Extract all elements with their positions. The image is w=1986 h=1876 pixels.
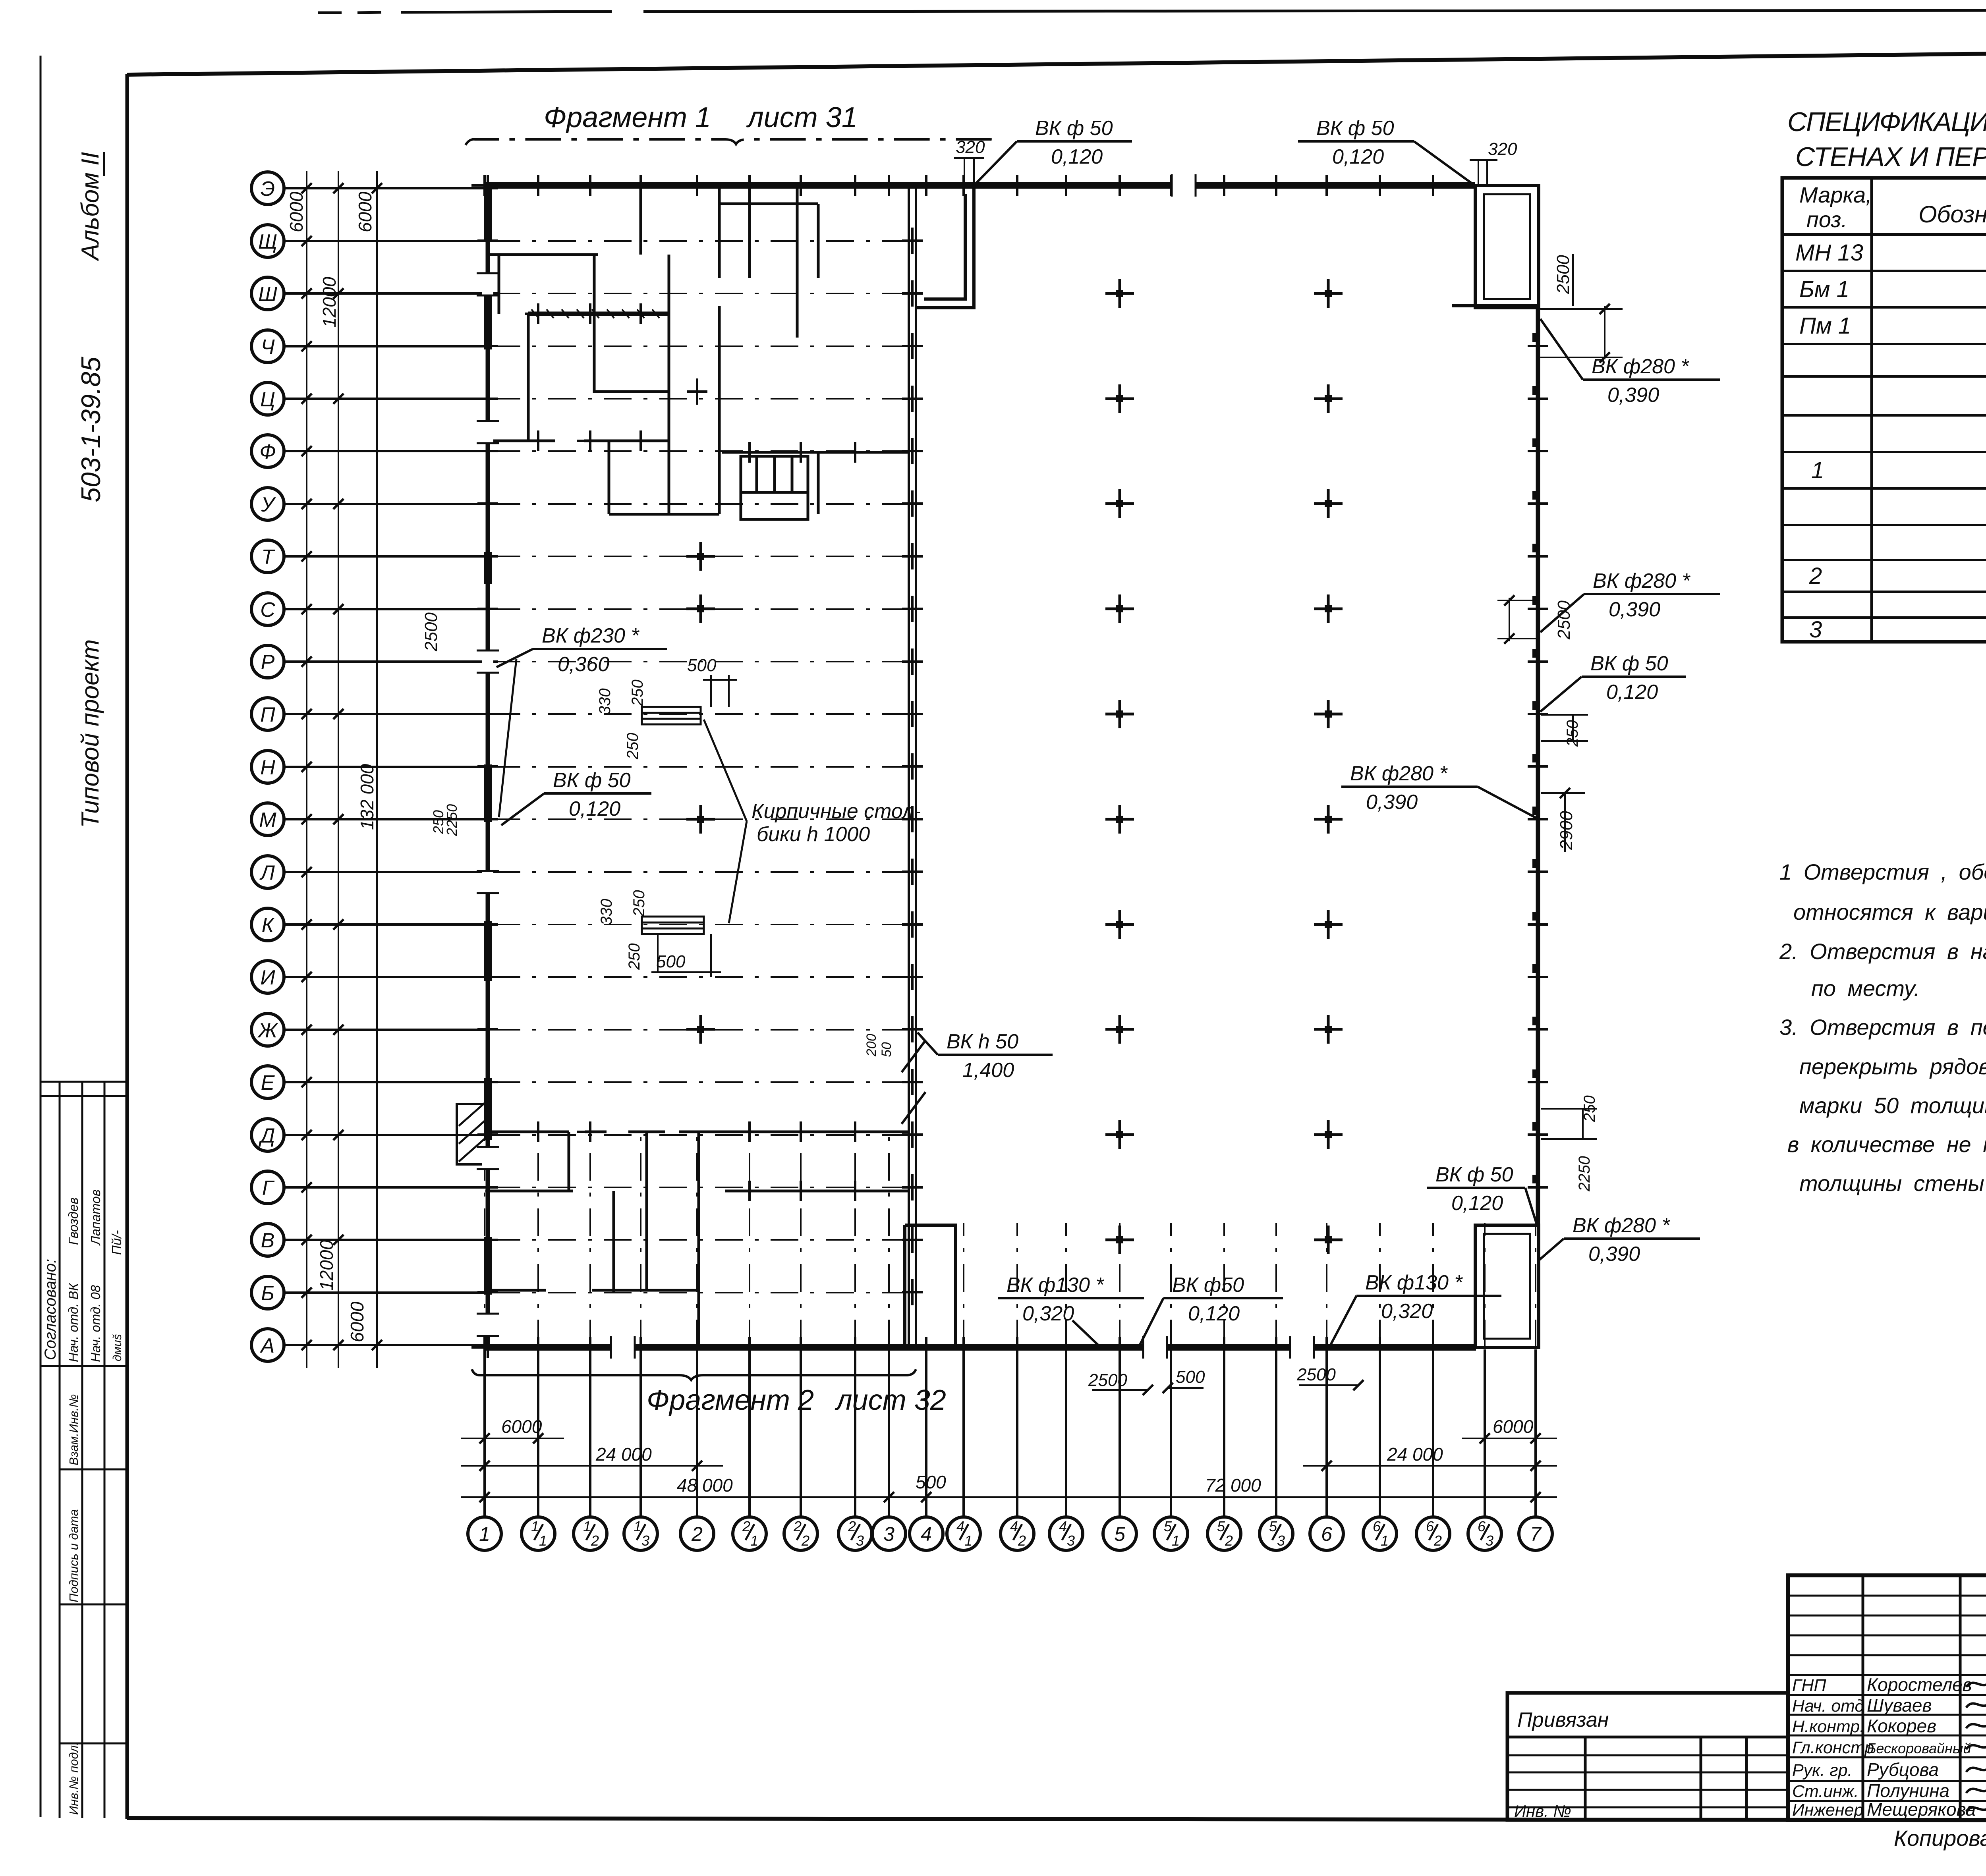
svg-text:330: 330	[596, 688, 614, 715]
extra top-left partition stubs	[499, 185, 818, 514]
central double wall	[908, 185, 910, 1347]
svg-text:Марка,: Марка,	[1799, 182, 1872, 207]
svg-text:Копировал:: Копировал:	[1894, 1826, 1986, 1851]
svg-text:Подпись и дата: Подпись и дата	[67, 1509, 81, 1603]
svg-text:Нач. отд. ВК: Нач. отд. ВК	[66, 1283, 81, 1362]
svg-text:500: 500	[1176, 1367, 1205, 1387]
axis 2/1	[733, 1349, 766, 1550]
svg-text:Инв.№ подл.: Инв.№ подл.	[67, 1742, 81, 1815]
svg-text:ВК ф230 *: ВК ф230 *	[542, 624, 639, 647]
wall break marks on central wall	[902, 1040, 925, 1124]
axis Д	[251, 1119, 909, 1151]
svg-text:Ш: Ш	[258, 283, 277, 306]
axis 1/1	[522, 1349, 555, 1550]
svg-text:С: С	[260, 598, 275, 621]
axis 3	[872, 1349, 906, 1550]
bottom-left hall corner room	[905, 1225, 956, 1346]
svg-text:500: 500	[656, 952, 686, 971]
top page edge dashes	[318, 10, 1986, 13]
svg-text:1: 1	[750, 1532, 758, 1549]
svg-text:3: 3	[641, 1532, 649, 1549]
outer thin left rule	[40, 56, 42, 1817]
svg-text:И: И	[260, 966, 275, 989]
crosses on top-left partitions	[525, 303, 551, 324]
axis А	[251, 1329, 488, 1361]
svg-text:1: 1	[539, 1532, 547, 1549]
svg-text:ГНП: ГНП	[1792, 1676, 1826, 1695]
svg-text:2500: 2500	[421, 612, 441, 652]
axis Ш	[251, 277, 909, 310]
svg-text:Ц: Ц	[260, 388, 275, 411]
svg-text:3: 3	[1067, 1532, 1075, 1549]
axis 6/1	[1363, 1349, 1397, 1550]
svg-text:200: 200	[864, 1034, 879, 1057]
svg-text:Мещерякова: Мещерякова	[1867, 1799, 1976, 1820]
svg-text:0,360: 0,360	[558, 653, 609, 676]
axis 5	[1103, 1349, 1136, 1550]
axis Ч	[251, 330, 909, 363]
svg-text:дмиš: дмиš	[111, 1334, 124, 1361]
number axis dashdot stubs inside plan	[485, 1132, 1536, 1347]
axis Ц	[251, 382, 909, 415]
axis 6	[1310, 1349, 1343, 1550]
svg-text:48 000: 48 000	[677, 1475, 733, 1496]
svg-text:3: 3	[1809, 617, 1822, 643]
axis Н	[251, 751, 909, 783]
svg-text:ВК ф 50: ВК ф 50	[1590, 652, 1668, 675]
svg-text:Инженер: Инженер	[1792, 1801, 1863, 1820]
axis 2/3	[838, 1349, 872, 1550]
svg-text:Согласовано:: Согласовано:	[42, 1259, 59, 1360]
svg-text:бики h 1000: бики h 1000	[757, 823, 870, 846]
svg-text:24 000: 24 000	[1387, 1444, 1443, 1465]
svg-text:3: 3	[883, 1523, 894, 1545]
axis 7	[1519, 1349, 1552, 1550]
axis 4	[910, 1349, 943, 1550]
svg-text:П: П	[260, 703, 275, 726]
svg-text:марки 50 толщиной 2÷3см. за: марки 50 толщиной 2÷3см. заложить армату…	[1799, 1093, 1986, 1118]
svg-text:Типовой проект: Типовой проект	[77, 639, 104, 828]
axis 5/3	[1260, 1349, 1293, 1550]
svg-text:ВК ф130 *: ВК ф130 *	[1007, 1274, 1104, 1297]
svg-text:М: М	[259, 809, 276, 832]
svg-text:7: 7	[1530, 1523, 1542, 1545]
svg-text:Л: Л	[259, 861, 275, 884]
svg-text:2500: 2500	[1296, 1365, 1336, 1384]
svg-text:1: 1	[479, 1523, 490, 1545]
svg-text:250: 250	[629, 679, 646, 706]
svg-text:ВК h 50: ВК h 50	[947, 1030, 1018, 1053]
svg-text:3: 3	[1277, 1532, 1285, 1549]
axis Е	[251, 1066, 909, 1098]
svg-text:ВК ф 50: ВК ф 50	[1035, 117, 1113, 140]
svg-text:500: 500	[687, 656, 717, 675]
svg-text:Ф: Ф	[259, 440, 276, 463]
svg-text:2500: 2500	[1553, 255, 1573, 294]
bottom-left partitions	[485, 1132, 909, 1347]
svg-text:Рук. гр.: Рук. гр.	[1792, 1761, 1852, 1780]
svg-text:0,120: 0,120	[1188, 1302, 1240, 1325]
axis С	[251, 593, 909, 625]
central wall opening crosses	[902, 228, 923, 254]
svg-text:250: 250	[630, 890, 648, 917]
svg-text:по месту.: по месту.	[1811, 976, 1920, 1001]
bottom wall opening crosses	[471, 1337, 498, 1358]
svg-text:Е: Е	[261, 1071, 275, 1094]
axis 2/2	[784, 1349, 817, 1550]
svg-text:Бескоровайный: Бескоровайный	[1867, 1740, 1971, 1756]
left wall pier segments	[484, 187, 492, 1295]
axis В	[251, 1224, 909, 1256]
svg-text:2500: 2500	[1088, 1370, 1127, 1390]
svg-text:Н: Н	[260, 756, 275, 779]
sidebar bottom stamp table	[41, 1082, 127, 1818]
svg-text:Альбом II: Альбом II	[77, 152, 104, 262]
svg-text:0,120: 0,120	[1606, 681, 1658, 704]
bottom dimension rows	[461, 1438, 1557, 1497]
svg-text:СТЕНАХ И ПЕРЕГОРОДКАХ НА О: СТЕНАХ И ПЕРЕГОРОДКАХ НА ОТМ. 0,000	[1795, 142, 1986, 172]
svg-text:Щ: Щ	[258, 230, 277, 253]
svg-text:Фрагмент 1 лист 31: Фрагмент 1 лист 31	[544, 102, 858, 133]
svg-text:Т: Т	[261, 546, 275, 569]
svg-text:Коростелев: Коростелев	[1867, 1674, 1972, 1695]
brick pillar upper	[642, 707, 701, 724]
svg-text:6000: 6000	[286, 191, 307, 232]
svg-text:Ч: Ч	[261, 336, 275, 359]
svg-text:0,120: 0,120	[1332, 145, 1384, 168]
svg-text:72 000: 72 000	[1205, 1475, 1261, 1496]
svg-text:2: 2	[1809, 563, 1822, 589]
top-right corner room	[1452, 185, 1539, 308]
svg-text:250: 250	[624, 733, 641, 760]
svg-text:50: 50	[879, 1042, 894, 1057]
svg-text:в количестве не менее одно: в количестве не менее одного стержня на …	[1787, 1132, 1986, 1157]
svg-text:3. Отверстия в перегородках: 3. Отверстия в перегородках шириной от 2…	[1779, 1015, 1986, 1040]
svg-text:6: 6	[1321, 1523, 1332, 1545]
svg-text:2. Отверстия в наружних сте: 2. Отверстия в наружних стеновых панелях…	[1779, 939, 1986, 964]
svg-text:0,320: 0,320	[1022, 1302, 1074, 1325]
axis Л	[251, 856, 909, 888]
top wall door opening	[1173, 180, 1195, 191]
spec table grid	[1782, 178, 1986, 642]
svg-text:2: 2	[1018, 1532, 1026, 1549]
top exterior wall	[484, 182, 1475, 189]
svg-text:Взам.Инв.№: Взам.Инв.№	[67, 1394, 81, 1465]
svg-text:1,400: 1,400	[962, 1059, 1014, 1082]
svg-text:ВК ф 50: ВК ф 50	[1316, 117, 1394, 140]
svg-text:Кокорев: Кокорев	[1867, 1716, 1936, 1736]
svg-text:ВК ф 50: ВК ф 50	[1435, 1163, 1513, 1186]
svg-text:12000: 12000	[319, 277, 340, 328]
svg-text:ВК ф50: ВК ф50	[1172, 1274, 1244, 1297]
svg-text:ВК ф130 *: ВК ф130 *	[1365, 1271, 1463, 1294]
svg-text:МН 13: МН 13	[1795, 240, 1863, 266]
axis 6/2	[1416, 1349, 1450, 1550]
bottom wall door openings	[612, 1342, 1313, 1353]
left wall opening crosses	[477, 175, 498, 201]
axis Э	[251, 172, 488, 205]
svg-text:ВК ф280 *: ВК ф280 *	[1350, 762, 1448, 785]
svg-text:2250: 2250	[1576, 1156, 1593, 1192]
svg-text:Лапатов: Лапатов	[88, 1189, 103, 1246]
axis 5/1	[1154, 1349, 1188, 1550]
title block frame	[1788, 1575, 1986, 1820]
svg-text:2: 2	[1433, 1532, 1442, 1549]
bottom exterior wall	[484, 1344, 1476, 1351]
svg-text:0,120: 0,120	[1451, 1192, 1503, 1215]
axis Т	[251, 540, 909, 573]
axis Ж	[251, 1013, 909, 1046]
svg-text:5: 5	[1114, 1523, 1125, 1545]
svg-text:2500: 2500	[1554, 600, 1574, 640]
axis М	[251, 803, 909, 836]
axis 4/2	[1001, 1349, 1034, 1550]
left dimension lines	[307, 171, 377, 1368]
svg-text:0,390: 0,390	[1366, 791, 1418, 814]
axis П	[251, 698, 909, 730]
svg-text:0,390: 0,390	[1588, 1243, 1640, 1266]
svg-text:500: 500	[916, 1472, 946, 1492]
svg-text:320: 320	[956, 137, 985, 157]
right wall opening crosses	[1528, 333, 1548, 359]
axis У	[251, 488, 909, 520]
svg-text:0,390: 0,390	[1607, 384, 1659, 407]
svg-text:Инв. №: Инв. №	[1514, 1802, 1571, 1820]
svg-text:В: В	[261, 1229, 275, 1252]
brick pillar lower	[642, 917, 704, 934]
svg-text:Р: Р	[261, 651, 275, 674]
svg-text:6000: 6000	[355, 191, 375, 232]
hall interior columns	[1105, 279, 1134, 308]
external hatched stub left	[457, 1104, 488, 1164]
axis 1/3	[624, 1349, 657, 1550]
bottom-right corner room	[1475, 1225, 1539, 1347]
svg-text:Пм 1: Пм 1	[1799, 313, 1851, 339]
axis 2	[680, 1349, 714, 1550]
svg-text:перекрыть рядовыми перемычка: перекрыть рядовыми перемычками. В слой р…	[1799, 1054, 1986, 1079]
svg-text:Бм 1: Бм 1	[1799, 276, 1849, 302]
svg-text:2250: 2250	[444, 804, 460, 836]
svg-text:У: У	[261, 493, 276, 516]
svg-text:0,390: 0,390	[1609, 598, 1660, 621]
svg-text:Фрагмент 2 лист 32: Фрагмент 2 лист 32	[647, 1384, 946, 1416]
Привязан table	[1507, 1693, 1788, 1820]
axis И	[251, 961, 909, 993]
svg-text:Б: Б	[261, 1282, 274, 1305]
svg-text:ВК ф280 *: ВК ф280 *	[1592, 355, 1689, 378]
svg-text:Н.контр.: Н.контр.	[1792, 1717, 1864, 1736]
svg-text:330: 330	[598, 899, 615, 925]
left block mid crosses	[686, 542, 715, 571]
axis 4/3	[1049, 1349, 1083, 1550]
svg-text:ВК ф 50: ВК ф 50	[553, 769, 631, 792]
axis Щ	[251, 225, 909, 257]
svg-text:2: 2	[691, 1523, 703, 1545]
svg-text:1: 1	[1381, 1532, 1389, 1549]
svg-text:503-1-39.85: 503-1-39.85	[76, 357, 106, 502]
svg-text:2900: 2900	[1557, 811, 1576, 850]
svg-text:ВК ф280 *: ВК ф280 *	[1593, 569, 1690, 593]
svg-text:ВК ф280 *: ВК ф280 *	[1573, 1214, 1670, 1237]
svg-text:132 000: 132 000	[357, 764, 377, 830]
svg-text:Шуваев: Шуваев	[1867, 1695, 1932, 1716]
svg-text:Кирпичные стол-: Кирпичные стол-	[752, 800, 921, 823]
svg-text:Гл.констр: Гл.констр	[1792, 1738, 1874, 1757]
svg-text:Пй/-: Пй/-	[109, 1230, 124, 1255]
svg-text:1 Отверстия , обозначенные на: 1 Отверстия , обозначенные на планах отв…	[1779, 859, 1986, 884]
axis Ф	[251, 435, 909, 467]
svg-text:3: 3	[856, 1532, 864, 1549]
axis 6/3	[1468, 1349, 1501, 1550]
axis 1/2	[574, 1349, 607, 1550]
svg-text:320: 320	[1488, 139, 1517, 159]
svg-text:А: А	[260, 1334, 275, 1357]
svg-text:Э: Э	[261, 178, 275, 201]
axis 4/1	[947, 1349, 980, 1550]
axis Б	[251, 1276, 909, 1309]
axis К	[251, 908, 909, 941]
svg-text:0,120: 0,120	[569, 797, 620, 820]
svg-text:1: 1	[1811, 457, 1824, 483]
svg-text:0,320: 0,320	[1381, 1300, 1433, 1323]
svg-text:24 000: 24 000	[595, 1444, 652, 1465]
svg-text:К: К	[262, 914, 275, 937]
top-left hall corner room	[916, 185, 974, 308]
hatch ticks on brick wall y=790	[531, 309, 659, 318]
axis 1	[468, 1349, 501, 1550]
svg-text:2: 2	[801, 1532, 809, 1549]
svg-text:4: 4	[921, 1523, 932, 1545]
svg-text:поз.: поз.	[1806, 207, 1847, 232]
svg-text:1: 1	[964, 1532, 972, 1549]
svg-text:0,120: 0,120	[1051, 145, 1103, 168]
svg-text:толщины стены с запуском н: толщины стены с запуском на опоры 250 мм…	[1799, 1171, 1986, 1196]
svg-text:относятся к варианту выпуск: относятся к варианту выпуска водостока н…	[1793, 899, 1986, 924]
svg-text:Нач. отд: Нач. отд	[1792, 1697, 1864, 1716]
svg-text:Привязан: Привязан	[1517, 1708, 1609, 1731]
svg-text:6000: 6000	[1493, 1416, 1534, 1437]
svg-text:Ж: Ж	[257, 1019, 278, 1042]
axis 5/2	[1207, 1349, 1241, 1550]
axis Р	[251, 645, 909, 678]
svg-text:1: 1	[1172, 1532, 1180, 1549]
svg-text:2: 2	[1225, 1532, 1233, 1549]
svg-text:6000: 6000	[347, 1301, 367, 1342]
right exterior wall	[1536, 306, 1540, 1225]
axis Г	[251, 1171, 909, 1204]
svg-text:Д: Д	[259, 1124, 275, 1147]
svg-text:2: 2	[591, 1532, 599, 1549]
svg-text:Обозначение: Обозначение	[1918, 201, 1986, 228]
top wall opening crosses	[471, 175, 498, 196]
svg-text:Ст.инж.: Ст.инж.	[1792, 1782, 1858, 1801]
svg-text:12000: 12000	[316, 1240, 337, 1291]
svg-text:Нач. отд. 08: Нач. отд. 08	[88, 1285, 103, 1362]
svg-text:Полунина: Полунина	[1867, 1780, 1949, 1801]
svg-text:Гвоздев: Гвоздев	[66, 1197, 81, 1245]
left exterior wall	[486, 185, 490, 1347]
svg-text:3: 3	[1486, 1532, 1493, 1549]
svg-text:Рубцова: Рубцова	[1867, 1759, 1939, 1780]
svg-text:Г: Г	[262, 1177, 275, 1200]
svg-text:250: 250	[626, 943, 643, 970]
svg-text:6000: 6000	[501, 1416, 542, 1437]
top-left partitions	[488, 185, 909, 519]
svg-text:СПЕЦИФИКАЦИЯ К ФРАГМЕНТАМ 1,: СПЕЦИФИКАЦИЯ К ФРАГМЕНТАМ 1,2 ПЛАНОВ ОТВ…	[1787, 106, 1986, 137]
left wall door openings	[482, 274, 493, 1335]
